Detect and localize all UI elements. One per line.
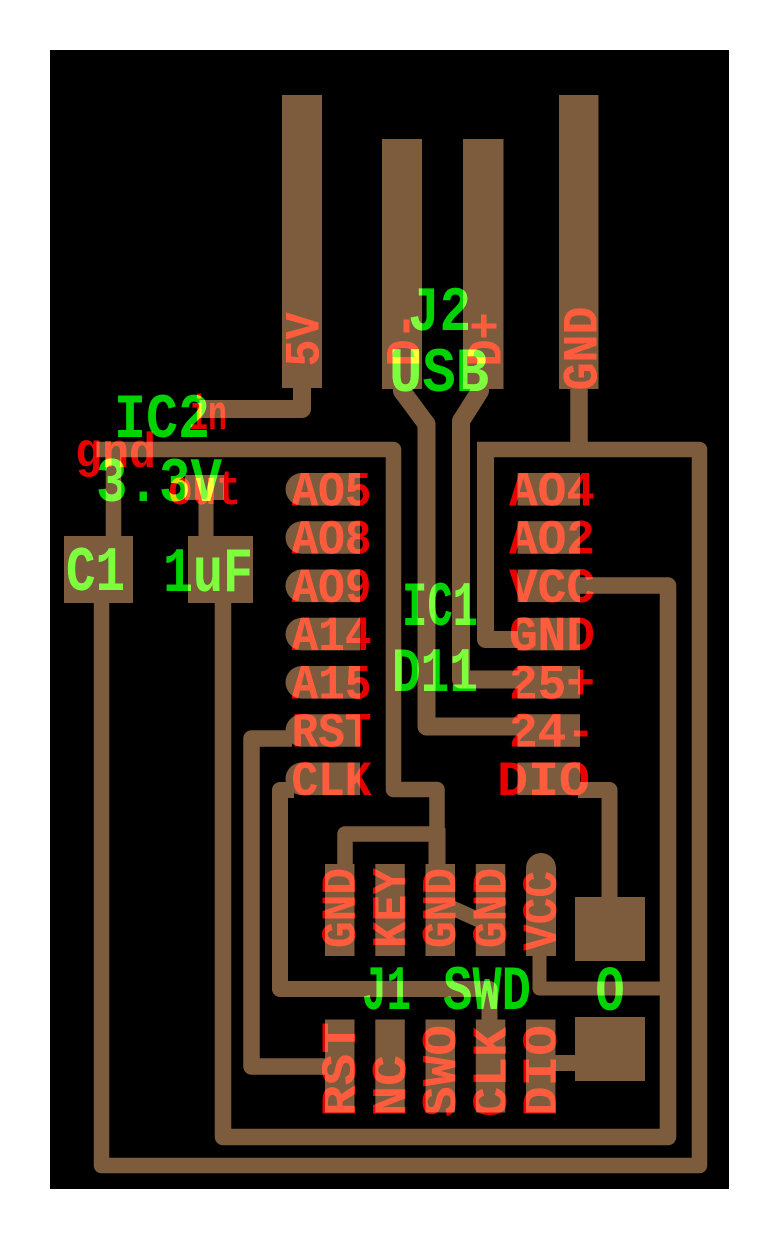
pad J2-1 5V (USB finger) <box>282 95 322 388</box>
svg-text:GND: GND <box>415 868 471 948</box>
svg-text:C1: C1 <box>66 538 125 609</box>
pad J1 bottom row NC <box>375 1020 405 1113</box>
svg-text:GND: GND <box>465 868 521 948</box>
wire IC2 out to C1 pad 2 <box>199 496 214 540</box>
svg-text:O: O <box>596 958 625 1030</box>
pad IC1 left AO9 <box>285 570 360 603</box>
pad J1 top row GND <box>476 864 506 956</box>
pad IC1 left RST <box>286 714 360 747</box>
svg-text:USB: USB <box>389 339 489 410</box>
wire gnd rail to C1 pad 1 top <box>106 445 122 540</box>
wire GND: J2 GND pad down to gnd rail <box>570 385 588 450</box>
pad IC1 left A14 <box>286 618 360 651</box>
wire gnd stub into J1 pad 3 <box>429 828 446 868</box>
svg-text:KEY: KEY <box>364 868 420 948</box>
wire VCC: C1 pad2 down, along bottom, up right side to IC1 VCC pad <box>223 586 668 1138</box>
pad C1-1 <box>64 536 133 603</box>
pad IC1 right DIO <box>518 763 581 796</box>
board outline (black substrate) <box>50 50 729 1189</box>
svg-text:GND: GND <box>556 307 612 391</box>
svg-text:5V: 5V <box>278 312 334 366</box>
wire gnd branch to IC1 GND pad <box>486 443 521 640</box>
wire RST: IC1 RST pad left end down to J1 RST pad <box>252 739 327 1067</box>
pad IC1 right AO2 <box>518 521 581 554</box>
pad C1-2 <box>188 536 253 603</box>
svg-text:GND: GND <box>314 868 370 948</box>
svg-text:DIO: DIO <box>515 1025 571 1117</box>
svg-text:IC2: IC2 <box>114 385 210 456</box>
pad J1 top row VCC (pin with round top) <box>526 853 556 956</box>
pad IC1 left AO5 <box>285 473 360 506</box>
svg-text:CLK: CLK <box>292 754 372 810</box>
svg-text:DIO: DIO <box>497 754 590 810</box>
pad IC2 out <box>185 475 224 500</box>
pad J2-3 D+ (USB finger) <box>463 139 504 389</box>
wire USB D- : J2 D- pad to IC1 24- pad <box>402 386 520 727</box>
pad J1 top row GND <box>325 864 355 956</box>
pad R1-2 <box>575 1017 645 1081</box>
svg-text:SWO: SWO <box>415 1025 471 1117</box>
svg-text:CLK: CLK <box>465 1027 521 1117</box>
pad IC1 right AO4 <box>518 473 581 506</box>
pad IC1 right 25+ <box>518 666 581 699</box>
pad J2-2 D- (USB finger) <box>382 139 422 389</box>
svg-text:RST: RST <box>314 1022 370 1117</box>
wire gnd bridge J1 pad3-pad4 <box>450 907 479 920</box>
svg-text:VCC: VCC <box>515 871 571 951</box>
pad IC1 left AO8 <box>286 521 360 554</box>
svg-text:IC1: IC1 <box>402 573 478 644</box>
wire 5V: J2 pad to IC2 in <box>200 385 303 409</box>
pad J1 bottom row SWO <box>426 1020 456 1113</box>
pad IC1 left A15 <box>285 666 360 699</box>
wire CLK: IC1 CLK pad left end down to J1 CLK pad <box>280 790 490 1024</box>
svg-text:D11: D11 <box>392 639 478 710</box>
pad J1 bottom row RST <box>325 1020 355 1113</box>
pad J1 bottom row CLK <box>476 1020 506 1113</box>
wire VCC stub J1 pad 10 to VCC riser <box>540 952 665 989</box>
svg-text:J1: J1 <box>362 957 411 1028</box>
pad IC1 right GND <box>518 618 581 651</box>
pad J1 top row KEY <box>375 864 405 956</box>
pad IC1 right VCC <box>518 570 581 603</box>
pad IC1 right 24- <box>518 714 581 747</box>
pad J2-4 GND (USB finger) <box>559 95 599 389</box>
svg-text:NC: NC <box>364 1055 420 1117</box>
svg-text:3.3V: 3.3V <box>96 449 222 520</box>
pad IC1 left CLK <box>285 763 360 796</box>
pad J1 bottom row DIO <box>526 1020 556 1113</box>
pad J1 top row GND <box>426 864 456 956</box>
pad R1-1 <box>575 897 645 961</box>
svg-text:SWD: SWD <box>443 957 531 1028</box>
wire DIO: IC1 DIO pad to R1 pad 1 <box>578 790 610 899</box>
svg-text:1uF: 1uF <box>163 539 253 610</box>
wire gnd rail left segment (IC2 gnd) down to J1 GND pads <box>97 450 438 869</box>
wire gnd rail right segment, down right edge, along bottom, up to C1 pad 1 <box>102 450 700 1166</box>
wire USB D+ : J2 D+ pad to IC1 25+ pad <box>461 386 520 680</box>
wire DIO: J1 DIO pad to R1 pad 2 <box>552 1055 577 1071</box>
